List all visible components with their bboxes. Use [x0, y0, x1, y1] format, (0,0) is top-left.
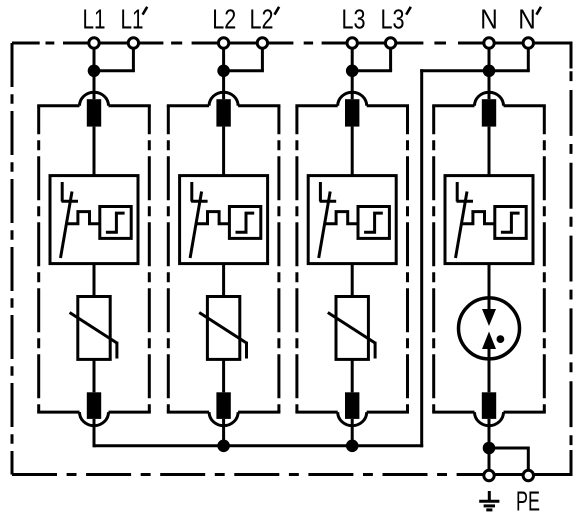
- terminal L1: [89, 38, 99, 48]
- wire L3' branch to junction: [352, 69, 392, 72]
- wire N' terminal down: [527, 43, 530, 71]
- riser wire bus to N junction: [420, 69, 423, 447]
- terminal L1p: [128, 38, 138, 48]
- solid border stub bottom-right corner: [570, 450, 573, 476]
- svg-text:L2: L2: [212, 3, 236, 34]
- plug-in arc bottom of module L2: [209, 412, 238, 426]
- wire N' to top-right corner (solid border stub): [528, 42, 571, 45]
- wire N terminal down to top plug contact: [488, 43, 491, 99]
- junction node L3: [346, 65, 359, 78]
- wire box to varistor L1: [93, 264, 96, 297]
- protection module L2 outline (dash-dot box with plug-in arcs): [167, 92, 281, 426]
- wire L2 terminal to L2' terminal: [224, 42, 263, 45]
- plug-in arc top of module L2: [209, 92, 238, 106]
- wire spark gap to bottom contact N: [488, 349, 491, 393]
- svg-text:L3: L3: [342, 3, 366, 34]
- wire varistor to bottom contact L3: [351, 359, 354, 392]
- bottom plug contact of module L1: [87, 392, 101, 419]
- svg-text:PE: PE: [516, 486, 540, 516]
- wire L1 terminal to L1' terminal: [94, 42, 133, 45]
- svg-text:N: N: [480, 3, 498, 34]
- varistor MOV of module L2: [199, 297, 246, 360]
- wire varistor to bottom contact L2: [222, 359, 225, 392]
- terminal L3: [347, 38, 357, 48]
- bottom plug contact of module L2: [216, 392, 230, 419]
- wire bottom contact to bus L1: [93, 419, 96, 447]
- top plug contact of module L2: [216, 99, 230, 126]
- wire L3' terminal down: [389, 43, 392, 71]
- thermal disconnector monitoring device U2 (box): [180, 176, 268, 264]
- varistor MOV of module L3: [328, 297, 375, 360]
- bottom plug contact of module L3: [345, 392, 359, 419]
- bus wire varistor commons: [94, 444, 423, 447]
- terminal L2: [218, 38, 228, 48]
- varistor MOV of module L1: [70, 297, 117, 360]
- wire L1' branch to junction: [94, 69, 135, 72]
- prime tick of L2': [275, 7, 280, 15]
- thermal disconnector monitoring device U4 (box): [445, 176, 533, 264]
- prime tick of L3': [406, 7, 411, 15]
- triggered spark gap F1 (circle with arrows): [459, 298, 520, 359]
- wire bottom contact to bus L3: [351, 419, 354, 447]
- wire box to varistor L2: [222, 264, 225, 297]
- svg-text:N: N: [518, 3, 536, 34]
- enclosure border top (dash-dot segments between terminals): [12, 42, 489, 45]
- wire N' branch to junction: [489, 69, 530, 72]
- thermal disconnector monitoring device U1 (box): [50, 176, 138, 264]
- prime tick of N': [536, 7, 541, 15]
- thermal disconnector monitoring device U3 (box): [308, 176, 396, 264]
- protection module L3 outline (dash-dot box with plug-in arcs): [295, 92, 409, 426]
- bottom plug contact of module N: [482, 392, 496, 419]
- plug-in arc bottom of module L1: [80, 412, 109, 426]
- wire contact to disconnector box L2: [222, 127, 225, 176]
- ground earth symbol: [479, 491, 499, 510]
- junction node N: [483, 65, 496, 78]
- wire N-bottom junction to PE': [489, 448, 528, 471]
- svg-text:L1: L1: [121, 3, 144, 34]
- junction node L2: [217, 65, 230, 78]
- svg-text:L2: L2: [250, 3, 274, 34]
- plug-in arc top of module L1: [80, 92, 109, 106]
- plug-in arc top of module L3: [338, 92, 367, 106]
- wire L1 terminal down to top plug contact: [93, 43, 96, 99]
- junction node L1: [88, 65, 101, 78]
- wire L1' terminal down: [132, 43, 135, 71]
- plug-in arc bottom of module N: [475, 412, 504, 426]
- wire varistor to bottom contact L1: [93, 359, 96, 392]
- enclosure border right: [570, 43, 573, 475]
- top plug contact of module L3: [345, 99, 359, 126]
- protection module N outline (dash-dot box with plug-in arcs): [432, 92, 546, 426]
- svg-text:L1: L1: [83, 3, 106, 34]
- svg-text:L3: L3: [381, 3, 405, 34]
- wire L3 terminal down to top plug contact: [351, 43, 354, 99]
- wire L2' branch to junction: [224, 69, 264, 72]
- wire contact to disconnector box N: [488, 127, 491, 176]
- enclosure border left: [11, 43, 14, 475]
- plug-in arc top of module N: [475, 92, 504, 106]
- wire L2 terminal down to top plug contact: [222, 43, 225, 99]
- wire L2' terminal down: [261, 43, 264, 71]
- wire box to varistor L3: [351, 264, 354, 297]
- terminal PE (earthed): [484, 470, 494, 480]
- prime tick of L1': [143, 7, 148, 15]
- junction node bus L2: [217, 440, 230, 453]
- enclosure border bottom: [12, 473, 571, 476]
- solid border stub top-right corner: [570, 42, 573, 69]
- terminal N: [484, 38, 494, 48]
- top plug contact of module N: [482, 99, 496, 126]
- terminal PE prime: [523, 470, 533, 480]
- terminal L2p: [257, 38, 267, 48]
- terminal Np: [523, 38, 533, 48]
- wire N terminal to N' terminal: [489, 42, 528, 45]
- wire riser top to N junction: [420, 69, 489, 72]
- wire between PE terminals to border corner: [489, 473, 571, 476]
- terminal L3p: [385, 38, 395, 48]
- protection module L1 outline (dash-dot box with plug-in arcs): [37, 92, 151, 426]
- wire bottom contact N to PE terminal: [488, 419, 491, 471]
- junction node N bottom: [483, 442, 496, 455]
- wire bottom contact to bus L2: [222, 419, 225, 447]
- wire box to spark gap N: [488, 264, 491, 310]
- top plug contact of module L1: [87, 99, 101, 126]
- wire contact to disconnector box L1: [93, 127, 96, 176]
- plug-in arc bottom of module L3: [338, 412, 367, 426]
- wire contact to disconnector box L3: [351, 127, 354, 176]
- wire L3 terminal to L3' terminal: [352, 42, 390, 45]
- junction node bus L3: [346, 440, 359, 453]
